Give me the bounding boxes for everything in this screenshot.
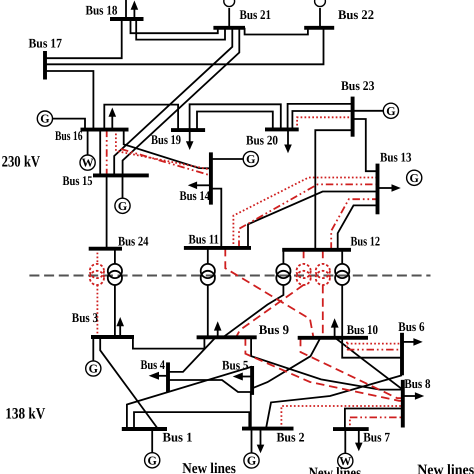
svg-text:G: G	[246, 152, 255, 166]
svg-text:Bus 13: Bus 13	[380, 150, 412, 165]
new line 8-10 (red dashed)	[301, 338, 403, 398]
wire generator lead bus2	[251, 429, 253, 453]
svg-text:Bus 17: Bus 17	[29, 36, 63, 51]
wire condenser lead bus16	[87, 130, 89, 155]
wire line 2-4	[168, 380, 251, 429]
svg-text:Bus 15: Bus 15	[63, 173, 93, 188]
bus 3 bar	[91, 335, 134, 339]
wire line 21-22	[245, 28, 308, 35]
wire generator lead bus3	[92, 337, 94, 361]
generator G bus21	[224, 0, 235, 7]
load arrow bus6 (right)	[402, 338, 423, 346]
wire generator lead bus23	[353, 110, 383, 112]
wire transformer leads 9-12	[282, 250, 284, 264]
generator G bus3	[86, 361, 101, 376]
svg-text:New lines: New lines	[309, 466, 362, 474]
generator G bus13	[407, 170, 422, 185]
condenser W bus7	[338, 453, 353, 468]
wire line 15-16	[99, 130, 101, 176]
230/138 kV boundary dashed line	[29, 275, 430, 277]
load arrow bus16 (up)	[109, 108, 117, 130]
wire line 15-21 circuit B	[123, 28, 240, 176]
svg-text:Bus 14: Bus 14	[180, 188, 211, 203]
bus 23 bar	[351, 97, 355, 137]
generator G bus2	[244, 453, 259, 468]
new transformer T10-12 (red dashed)	[316, 264, 330, 285]
svg-text:New lines: New lines	[417, 463, 474, 474]
bus 20 bar	[265, 127, 299, 131]
wire line 1-5	[127, 367, 252, 429]
new line 14-16 circuit B (red dash-dot)	[121, 149, 211, 176]
transformer T9-12	[276, 264, 290, 285]
transformer T9-11	[201, 264, 215, 285]
wire line 13-23	[353, 119, 378, 171]
new line 6-10 circuit A (red dotted)	[346, 338, 348, 350]
new line 11-13 circuit A (red dotted)	[233, 178, 377, 248]
wire line 17-18	[45, 19, 122, 58]
bus 19 bar	[171, 128, 205, 132]
wire generator lead bus21	[228, 8, 230, 28]
svg-text:Bus 1: Bus 1	[163, 430, 193, 445]
wire line 20-23 circuit A	[288, 104, 353, 129]
svg-text:Bus 22: Bus 22	[338, 7, 374, 22]
svg-text:Bus 2: Bus 2	[277, 430, 305, 445]
new line 3-24 (red dotted)	[96, 249, 98, 264]
bus 18 bar	[110, 17, 144, 21]
svg-text:Bus 4: Bus 4	[141, 357, 166, 372]
wire generator lead bus16	[53, 119, 85, 130]
load arrow bus13 (right)	[378, 184, 401, 192]
svg-text:G: G	[40, 112, 49, 126]
svg-text:Bus 9: Bus 9	[259, 322, 290, 337]
wire line 7-8	[345, 409, 403, 430]
svg-text:138 kV: 138 kV	[5, 406, 45, 423]
bus 10 bar	[298, 336, 368, 340]
wire line 19-20 circuit B	[197, 112, 273, 131]
svg-text:G: G	[386, 104, 395, 118]
generator G bus16	[37, 111, 52, 126]
wire line 12-13	[338, 205, 378, 249]
wire line 17-22	[45, 28, 324, 65]
wire condenser lead bus7	[344, 429, 346, 453]
new line 10-12 (red dashed)	[322, 250, 324, 264]
bus 7 bar	[333, 427, 369, 431]
wire line 1-3	[100, 337, 158, 429]
bus 11 bar	[184, 246, 251, 250]
wire transformer leads 10-12	[341, 250, 343, 264]
generator G bus22	[315, 0, 326, 7]
new line 14-16 circuit A (red dotted)	[116, 130, 211, 170]
transformer T10-12	[335, 264, 349, 285]
generator G bus1	[145, 453, 160, 468]
wire line 11-13	[248, 192, 378, 248]
load arrow bus19 (down)	[186, 130, 194, 150]
load arrow bus4 (left)	[149, 372, 168, 380]
wire transformer leads 9-11	[207, 248, 209, 264]
svg-text:Bus 10: Bus 10	[347, 322, 379, 337]
wire line 19-20 circuit A	[190, 104, 281, 130]
load arrow bus5 (left)	[233, 373, 252, 381]
bus 5 bar	[250, 366, 254, 395]
condenser W bus16	[80, 155, 95, 170]
wire line 15-24	[106, 175, 108, 248]
wire line 18-21 circuit A	[131, 19, 218, 33]
bus 8 bar	[401, 380, 405, 428]
new line 9-12 (red dashed)	[303, 250, 305, 264]
wire generator lead bus1	[151, 429, 153, 453]
new line 6-10 circuit B (red dash-dot)	[347, 349, 402, 351]
wire line 3-9	[133, 337, 205, 349]
wire line 11-14	[211, 189, 221, 248]
svg-text:Bus 8: Bus 8	[404, 376, 430, 391]
svg-text:Bus 3: Bus 3	[72, 310, 99, 325]
load arrow bus3 (up)	[116, 317, 124, 337]
wire line 2-6	[266, 375, 402, 428]
svg-text:Bus 5: Bus 5	[222, 358, 249, 373]
svg-text:230 kV: 230 kV	[2, 154, 41, 171]
wire line 15-21 circuit A	[114, 28, 232, 176]
svg-text:Bus 24: Bus 24	[118, 234, 149, 249]
new line 7-8 (red dash-dot)	[349, 417, 351, 429]
wire transformer leads 3-24	[114, 249, 116, 264]
bus 6 bar	[400, 333, 404, 376]
wire line 4-9	[168, 337, 216, 372]
svg-text:Bus 18: Bus 18	[86, 3, 118, 18]
bus 9 bar	[197, 335, 257, 339]
new line 8-9 (red dashed)	[245, 337, 402, 401]
svg-text:Bus 23: Bus 23	[341, 78, 375, 93]
svg-text:Bus 20: Bus 20	[246, 133, 278, 148]
svg-text:Bus 16: Bus 16	[55, 128, 83, 143]
transformer T3-24	[108, 264, 122, 285]
wire line 18-21 circuit B	[136, 19, 225, 40]
bus 4 bar	[166, 362, 170, 392]
wire line 14-16	[124, 130, 211, 169]
load arrow bus8 (right)	[403, 392, 424, 400]
generator G bus23	[383, 103, 398, 118]
wire generator lead bus22	[319, 8, 321, 28]
load arrow bus9 (up)	[214, 321, 222, 337]
wire line 12-23	[315, 130, 352, 250]
bus 15 bar	[93, 173, 149, 177]
new line 12-13 (red dash-dot)	[331, 199, 377, 250]
bus 22 bar	[304, 26, 334, 30]
bus 14 bar	[209, 152, 213, 204]
load arrow bus18 (up)	[131, 1, 139, 20]
svg-text:New lines: New lines	[182, 461, 236, 474]
svg-text:G: G	[410, 171, 419, 185]
bus 13 bar	[376, 164, 380, 215]
new transformer T3-24 (red dashed)	[90, 264, 104, 285]
wire bus18 feeder up	[125, 0, 127, 19]
wire line 1-2	[134, 412, 249, 429]
wire line 6-10	[342, 338, 402, 358]
load arrow bus20 (down)	[284, 129, 292, 153]
wire line 5-10	[252, 338, 320, 389]
svg-text:Bus 12: Bus 12	[351, 234, 381, 249]
load arrow bus7 (down)	[355, 429, 363, 451]
load arrow bus2 (down)	[257, 429, 265, 454]
load arrow bus14 (left)	[188, 182, 211, 190]
wire line 16-19	[104, 105, 178, 131]
svg-text:Bus 7: Bus 7	[363, 430, 390, 445]
new line 20-23 (red dotted)	[297, 117, 353, 129]
wire generator lead bus15	[122, 175, 124, 198]
bus 2 bar	[242, 427, 294, 431]
bus 24 bar	[89, 247, 122, 251]
svg-text:Bus 11: Bus 11	[189, 232, 220, 247]
new line 10-11 (red dashed)	[225, 248, 313, 338]
wire line 16-17	[45, 71, 93, 130]
bus 16 bar	[81, 128, 129, 132]
new line 11-13 circuit B (red dash-dot)	[239, 184, 378, 248]
new transformer T9-12 (red dashed)	[297, 264, 311, 285]
new line 15-16 (red dash-dot)	[106, 130, 108, 176]
svg-text:G: G	[148, 453, 157, 467]
svg-text:Bus 6: Bus 6	[398, 319, 425, 334]
bus 1 bar	[122, 427, 167, 431]
wire line 20-23 circuit B	[292, 111, 352, 129]
wire line 8-10	[335, 338, 403, 390]
svg-text:W: W	[82, 156, 94, 170]
wire generator lead bus14	[211, 158, 243, 160]
svg-text:Bus 19: Bus 19	[151, 132, 181, 147]
bus 12 bar	[282, 248, 351, 252]
new line 2-8 (red dotted)	[281, 406, 402, 429]
svg-text:Bus 21: Bus 21	[240, 7, 272, 22]
svg-text:G: G	[118, 199, 127, 213]
load arrow bus10 (up)	[331, 318, 339, 338]
bus 17 bar	[43, 51, 47, 80]
generator G bus15	[115, 198, 130, 213]
svg-text:G: G	[89, 362, 98, 376]
wire line 8-9	[251, 337, 403, 389]
svg-text:G: G	[247, 454, 256, 468]
generator G bus14	[243, 151, 258, 166]
bus 21 bar	[213, 26, 245, 30]
